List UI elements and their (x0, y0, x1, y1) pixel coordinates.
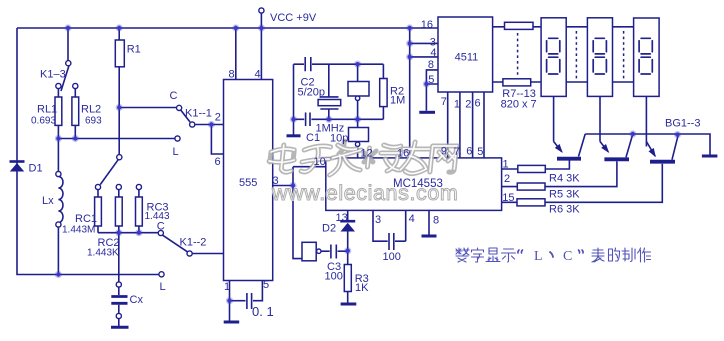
svg-text:5: 5 (477, 146, 483, 158)
svg-text:RL1: RL1 (37, 104, 57, 116)
svg-text:9: 9 (441, 146, 447, 158)
svg-text:3: 3 (375, 214, 381, 226)
svg-text:6: 6 (215, 156, 221, 168)
svg-text:6: 6 (475, 98, 481, 110)
svg-text:8: 8 (229, 69, 235, 81)
svg-text:10: 10 (314, 156, 326, 168)
svg-text:1.443K: 1.443K (87, 248, 119, 259)
svg-text:3: 3 (273, 175, 279, 187)
svg-text:100: 100 (325, 271, 343, 283)
svg-text:555: 555 (239, 177, 257, 189)
svg-text:13: 13 (336, 212, 348, 224)
svg-text:1: 1 (224, 281, 230, 293)
svg-text:K1--2: K1--2 (180, 237, 207, 249)
svg-text:2: 2 (215, 112, 221, 124)
svg-text:C: C (170, 90, 178, 102)
svg-text:4: 4 (430, 47, 436, 59)
svg-text:Lx: Lx (42, 195, 54, 207)
svg-text:16: 16 (397, 148, 409, 160)
svg-text:K1–3: K1–3 (40, 69, 66, 81)
svg-text:C1: C1 (306, 132, 320, 144)
svg-text:0. 1: 0. 1 (252, 304, 274, 319)
svg-text:10p: 10p (330, 133, 348, 145)
svg-text:K1--1: K1--1 (185, 108, 212, 120)
svg-text:820 x 7: 820 x 7 (501, 99, 537, 111)
svg-text:2: 2 (465, 99, 471, 111)
svg-text:Cx: Cx (130, 294, 144, 306)
svg-text:7: 7 (441, 96, 447, 108)
svg-text:1: 1 (454, 99, 460, 111)
svg-text:R4 3K: R4 3K (549, 173, 580, 185)
svg-text:1K: 1K (355, 282, 369, 294)
svg-text:L: L (173, 146, 179, 158)
svg-text:15: 15 (502, 192, 514, 204)
svg-text:693: 693 (85, 116, 102, 127)
svg-text:L: L (534, 249, 543, 264)
svg-text:R5 3K: R5 3K (549, 189, 580, 201)
svg-text:2: 2 (504, 173, 510, 185)
svg-text:5: 5 (428, 74, 434, 86)
svg-text:RC1: RC1 (75, 213, 97, 225)
svg-text:MC14553: MC14553 (393, 178, 443, 190)
svg-text:RL2: RL2 (81, 104, 101, 116)
svg-text:4511: 4511 (455, 52, 479, 64)
svg-text:1: 1 (503, 159, 509, 171)
svg-text:1.443M: 1.443M (62, 225, 95, 236)
svg-text:5: 5 (263, 279, 269, 291)
svg-text:D1: D1 (29, 163, 43, 175)
svg-text:8: 8 (428, 59, 434, 71)
svg-text:D2: D2 (322, 223, 336, 235)
svg-text:16: 16 (421, 19, 433, 31)
svg-text:BG1--3: BG1--3 (665, 118, 700, 130)
svg-text:6: 6 (466, 146, 472, 158)
svg-text:C: C (157, 221, 165, 233)
svg-text:7: 7 (454, 146, 460, 158)
svg-text:R1: R1 (127, 44, 141, 56)
svg-text:R6 3K: R6 3K (549, 204, 580, 216)
svg-text:4: 4 (255, 69, 261, 81)
svg-text:100: 100 (383, 251, 401, 263)
svg-text:4: 4 (409, 213, 415, 225)
svg-text:1M: 1M (390, 95, 405, 107)
svg-text:5/20p: 5/20p (298, 87, 326, 99)
svg-text:VCC +9V: VCC +9V (270, 12, 317, 24)
svg-text:12: 12 (361, 148, 373, 160)
svg-text:C: C (563, 249, 572, 264)
svg-text:8: 8 (433, 215, 439, 227)
svg-text:L: L (160, 281, 166, 293)
svg-text:0.693: 0.693 (31, 116, 56, 127)
